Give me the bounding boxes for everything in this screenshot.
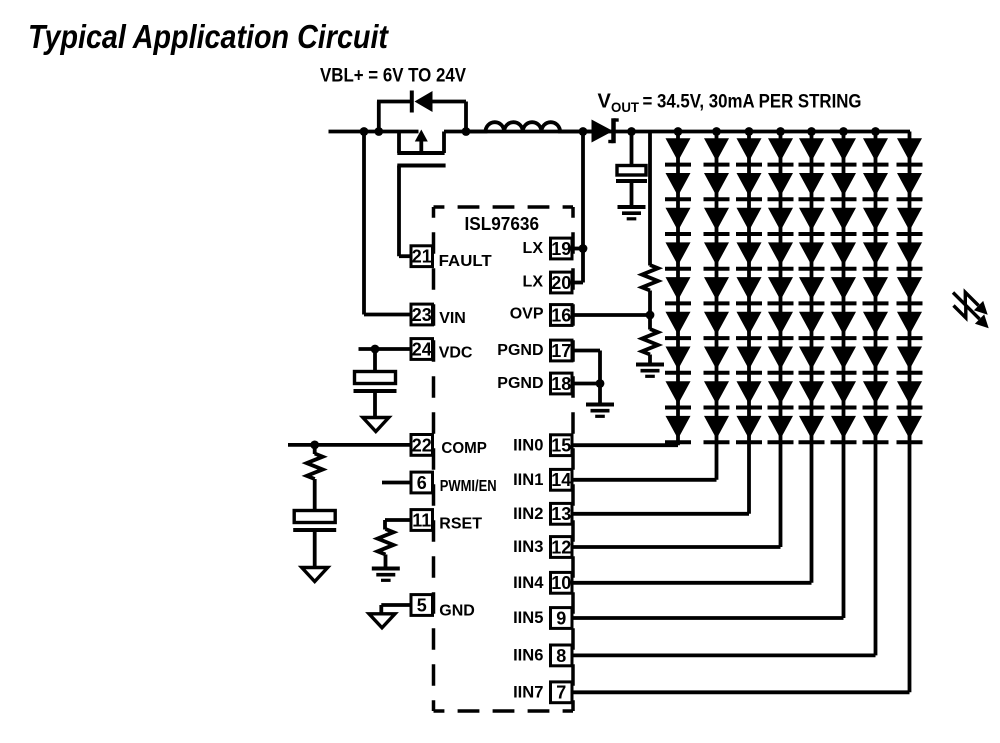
svg-text:GND: GND (439, 603, 475, 620)
svg-text:16: 16 (551, 305, 571, 325)
svg-text:14: 14 (551, 470, 571, 490)
svg-text:18: 18 (551, 374, 571, 394)
svg-text:= 34.5V, 30mA PER STRING: = 34.5V, 30mA PER STRING (643, 92, 862, 113)
svg-text:ISL97636: ISL97636 (465, 214, 540, 234)
svg-text:FAULT: FAULT (439, 253, 492, 270)
svg-text:5: 5 (417, 595, 427, 615)
svg-text:10: 10 (551, 573, 571, 593)
svg-text:IIN3: IIN3 (513, 537, 543, 556)
svg-text:PGND: PGND (497, 342, 543, 359)
svg-text:VIN: VIN (439, 310, 466, 327)
svg-text:20: 20 (551, 273, 571, 293)
svg-text:IIN1: IIN1 (513, 470, 543, 489)
svg-text:IIN2: IIN2 (513, 504, 543, 523)
svg-text:IIN5: IIN5 (513, 608, 543, 627)
svg-text:6: 6 (417, 473, 427, 493)
svg-text:23: 23 (412, 305, 432, 325)
svg-text:IIN6: IIN6 (513, 646, 543, 665)
svg-text:IIN0: IIN0 (513, 435, 543, 454)
svg-text:COMP: COMP (441, 440, 487, 457)
svg-text:13: 13 (551, 504, 571, 524)
svg-text:7: 7 (556, 683, 566, 703)
svg-text:12: 12 (551, 537, 571, 557)
svg-text:11: 11 (412, 510, 431, 530)
svg-text:Typical Application Circuit: Typical Application Circuit (28, 19, 390, 56)
svg-text:PGND: PGND (497, 375, 543, 392)
svg-text:19: 19 (551, 239, 571, 259)
svg-text:LX: LX (523, 274, 544, 291)
svg-text:IIN7: IIN7 (513, 683, 543, 702)
svg-text:15: 15 (551, 436, 571, 456)
svg-text:21: 21 (412, 247, 432, 267)
svg-text:9: 9 (556, 608, 566, 628)
svg-text:OVP: OVP (510, 306, 544, 323)
svg-text:RSET: RSET (439, 516, 482, 533)
svg-text:VBL+ = 6V TO 24V: VBL+ = 6V TO 24V (320, 66, 466, 87)
svg-text:PWMI/EN: PWMI/EN (440, 478, 497, 495)
svg-text:17: 17 (551, 341, 571, 361)
svg-text:IIN4: IIN4 (513, 573, 544, 592)
svg-text:VDC: VDC (439, 345, 473, 362)
svg-text:OUT: OUT (611, 100, 640, 115)
svg-text:22: 22 (412, 435, 432, 455)
svg-text:24: 24 (412, 339, 432, 359)
svg-text:LX: LX (523, 240, 544, 257)
svg-text:V: V (598, 91, 612, 113)
svg-text:8: 8 (556, 646, 566, 666)
